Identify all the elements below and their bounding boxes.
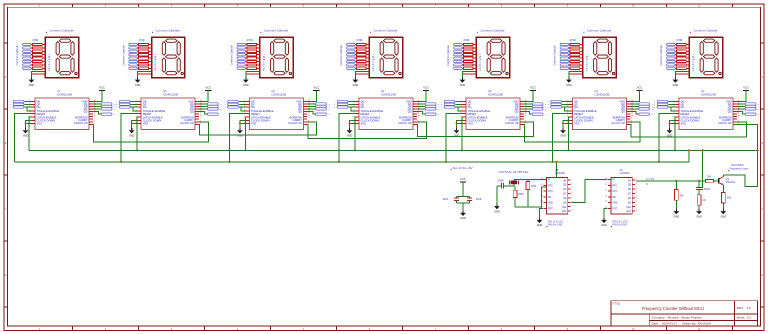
svg-text:CRYSTAL 32.768 KHz: CRYSTAL 32.768 KHz — [499, 170, 529, 174]
wire carry link U5 to U4 — [307, 122, 426, 139]
display DS2 (7-segment common cathode) — [152, 37, 185, 77]
label ALL VCCs +5V — [451, 166, 473, 171]
svg-text:8: 8 — [572, 210, 573, 212]
counter IC U7 left terminals — [10, 100, 24, 109]
counter IC U6 left terminals — [116, 100, 130, 109]
svg-text:x: x — [116, 101, 117, 103]
ground DS3 — [243, 78, 249, 87]
svg-text:12: 12 — [605, 190, 607, 192]
svg-text:VCC: VCC — [205, 86, 211, 90]
wire U4 RESET to reset bus — [338, 114, 355, 163]
counter IC U2 CD40110B body — [573, 98, 627, 130]
svg-text:x: x — [116, 104, 117, 106]
svg-text:13: 13 — [541, 195, 543, 197]
svg-text:GND: GND — [537, 224, 543, 227]
svg-text:VCC: VCC — [530, 86, 536, 90]
svg-text:Common Cathode: Common Cathode — [264, 28, 289, 32]
svg-text:QG: QG — [681, 105, 685, 109]
wire reset bus — [14, 150, 689, 162]
svg-text:Q13: Q13 — [562, 210, 567, 213]
svg-text:RST: RST — [548, 207, 553, 210]
wires U5 VSS and CLOCK DOWN to ground — [239, 120, 246, 128]
display DS4 label Common Cathode — [370, 28, 398, 33]
svg-text:20M: 20M — [518, 192, 524, 196]
svg-text:8: 8 — [636, 210, 637, 212]
display DS7 common cathode pin — [675, 73, 689, 75]
counter IC U2 right terminals — [639, 103, 653, 116]
svg-text:7: 7 — [636, 205, 637, 207]
ground R6 — [720, 209, 726, 218]
display DS5 segment terminals — [447, 43, 462, 69]
svg-text:Common Cathode: Common Cathode — [156, 28, 181, 32]
svg-text:1K: 1K — [702, 198, 706, 202]
svg-text:x: x — [652, 109, 653, 111]
wires U7 VSS and CLOCK DOWN to ground — [25, 120, 32, 128]
svg-text:Common Cathode: Common Cathode — [587, 28, 612, 32]
display DS6 segment terminals — [554, 43, 569, 69]
svg-text:VSS: VSS — [251, 122, 257, 126]
svg-text:2M: 2M — [680, 193, 685, 197]
svg-text:x: x — [329, 109, 330, 111]
svg-text:D: D — [761, 274, 763, 277]
svg-text:x: x — [10, 104, 11, 106]
counter IC U7 pins — [29, 100, 95, 125]
svg-text:CD40110B: CD40110B — [595, 92, 610, 96]
svg-text:6: 6 — [136, 116, 137, 118]
svg-text:RESET: RESET — [468, 112, 477, 116]
display DS1 label Common Cathode — [46, 28, 74, 33]
svg-text:QD: QD — [515, 110, 519, 114]
svg-text:GND: GND — [494, 210, 500, 213]
wire bus feed to U8 — [555, 161, 557, 178]
ground DS2 — [135, 78, 141, 87]
wire VCC to decoupling caps — [457, 182, 470, 198]
svg-text:GND: GND — [460, 84, 466, 87]
display DS6 label Common Cathode — [583, 28, 611, 33]
svg-text:5: 5 — [572, 197, 573, 199]
svg-text:QD: QD — [728, 110, 732, 114]
ground R3 — [673, 209, 679, 218]
label U9 PIN16 VCC PIN8 GND — [611, 221, 628, 228]
svg-text:CLOCK UP: CLOCK UP — [74, 121, 88, 125]
crystal X1 32.768kHz — [510, 180, 519, 186]
svg-text:33pF: 33pF — [498, 178, 505, 182]
svg-text:x: x — [654, 107, 655, 109]
svg-text:VSS: VSS — [574, 122, 580, 126]
counter IC U6 right terminals — [207, 103, 221, 116]
wire carry link U4 to U3 — [417, 122, 534, 137]
wire U5 LATCH ENABLE to latch bus — [244, 117, 246, 151]
svg-text:CD40110B: CD40110B — [701, 92, 716, 96]
wires U5 right pins to terminals — [307, 104, 315, 114]
svg-text:QG: QG — [251, 105, 255, 109]
svg-text:GND: GND — [601, 224, 607, 227]
wire carry link U7 to U6 — [93, 122, 209, 142]
wire U8 output to U9 input — [571, 180, 607, 203]
svg-text:CD40110B: CD40110B — [57, 92, 72, 96]
counter IC U3 right terminals — [532, 103, 546, 116]
wire DS5 cathode to ground — [462, 72, 476, 80]
display DS1 common cathode pin — [31, 73, 45, 75]
label U6 CD40110B — [163, 89, 178, 97]
label U9 CD4060 — [620, 169, 630, 175]
svg-text:a b c d e f g dp 1: a b c d e f g dp 1 — [155, 53, 157, 71]
display DS4 (7-segment common cathode) — [369, 37, 402, 77]
counter IC U5 left terminals — [224, 100, 238, 109]
power VCC at U6 — [205, 86, 211, 91]
svg-text:Common Cathode: Common Cathode — [340, 45, 343, 66]
wire decoupling caps to ground — [457, 201, 470, 212]
wire carry link U6 to U5 — [199, 122, 317, 135]
svg-text:9: 9 — [631, 118, 632, 120]
svg-text:CD40110B: CD40110B — [163, 92, 178, 96]
display DS5 label Common Cathode — [477, 28, 505, 33]
svg-text:x: x — [758, 109, 759, 111]
svg-text:GND: GND — [673, 84, 679, 87]
svg-text:GND: GND — [23, 134, 29, 137]
svg-text:470R: 470R — [570, 38, 576, 42]
svg-text:470R: 470R — [356, 38, 362, 42]
counter IC U3 pins — [460, 100, 526, 125]
svg-text:VCC: VCC — [460, 177, 466, 181]
svg-text:QD: QD — [621, 110, 625, 114]
svg-text:RS: RS — [612, 196, 616, 199]
display DS7 label Common Cathode — [690, 28, 718, 33]
wire VCC to U3 pin 16 — [524, 90, 533, 101]
power VCC at U5 — [313, 86, 319, 91]
svg-text:6: 6 — [353, 116, 354, 118]
wire carry link U3 to U2 — [524, 122, 640, 142]
svg-text:QD: QD — [84, 110, 88, 114]
wires U7 left terminals to pins — [24, 102, 31, 111]
svg-text:a b c d e f g dp 1: a b c d e f g dp 1 — [480, 53, 482, 71]
svg-text:PI: PI — [612, 179, 615, 182]
power VCC at U4 — [423, 86, 429, 91]
wires U2 right pins to terminals — [630, 104, 638, 114]
capacitor C2 10nF — [467, 197, 482, 201]
svg-text:2N2222: 2N2222 — [726, 180, 736, 184]
wire VCC to U7 pin 16 — [93, 90, 102, 101]
wire latch bus down to C4 — [702, 149, 704, 187]
svg-text:x: x — [224, 101, 225, 103]
wire U9 VSS to ground — [604, 208, 607, 218]
label U1 CD40110B — [701, 89, 716, 97]
wire U6 LATCH ENABLE to latch bus — [136, 117, 138, 151]
ground U2 — [560, 128, 566, 137]
wires U1 VSS and CLOCK DOWN to ground — [669, 120, 676, 128]
svg-text:CLOCK UP: CLOCK UP — [288, 121, 302, 125]
wires U2 left terminals to pins — [562, 102, 569, 111]
display DS5 common cathode pin — [462, 73, 476, 75]
svg-text:x: x — [114, 109, 115, 111]
svg-text:VCC: VCC — [423, 86, 429, 90]
svg-text:QD: QD — [190, 110, 194, 114]
svg-text:PI: PI — [548, 179, 551, 182]
svg-text:CLOCK UP: CLOCK UP — [505, 121, 519, 125]
svg-text:470R: 470R — [32, 38, 38, 42]
wire VCC to U1 pin 16 — [737, 90, 746, 101]
svg-text:Frequency Counter Without MCU: Frequency Counter Without MCU — [642, 306, 704, 311]
svg-text:11: 11 — [541, 184, 543, 186]
svg-text:Q13: Q13 — [626, 210, 631, 213]
wire U9 output 2Hz signal line — [636, 180, 706, 182]
counter IC U2 left terminals — [548, 100, 562, 109]
label U8 PIN16 VCC PIN8 GND — [546, 221, 563, 228]
ground U5 — [237, 128, 243, 137]
wires U6 VSS and CLOCK DOWN to ground — [131, 120, 138, 128]
svg-text:Q12: Q12 — [626, 206, 631, 209]
wire U4 LATCH ENABLE to latch bus — [354, 117, 356, 151]
capacitor C3 33pF — [498, 178, 505, 188]
svg-text:GND: GND — [135, 84, 141, 87]
svg-text:13: 13 — [605, 195, 607, 197]
wire U2 RESET to reset bus — [551, 114, 568, 163]
svg-text:RTC: RTC — [612, 184, 617, 187]
svg-text:x: x — [545, 109, 546, 111]
divider IC U9 CD4060 body — [611, 178, 632, 214]
svg-text:6: 6 — [673, 116, 674, 118]
counter IC U3 left terminals — [441, 100, 455, 109]
svg-text:x: x — [334, 101, 335, 103]
svg-text:Common Cathode: Common Cathode — [122, 45, 125, 66]
svg-text:10M: 10M — [531, 184, 537, 188]
wire DS6 cathode to ground — [569, 72, 583, 80]
counter IC U1 right terminals — [745, 103, 759, 116]
svg-text:CLOCK UP: CLOCK UP — [398, 121, 412, 125]
display DS4 common cathode pin — [355, 73, 369, 75]
wires U6 right pins to terminals — [199, 104, 207, 114]
svg-text:a b c d e f g dp 1: a b c d e f g dp 1 — [693, 53, 695, 71]
wire R1 R2 to U8 oscillator pin — [515, 187, 546, 207]
transistor Q1 2N2222 — [719, 177, 736, 185]
ground U1 — [667, 128, 673, 137]
svg-text:VSS: VSS — [468, 122, 474, 126]
svg-text:a b c d e f g dp 1: a b c d e f g dp 1 — [373, 53, 375, 71]
svg-text:2: 2 — [572, 183, 573, 185]
svg-text:QG: QG — [468, 105, 472, 109]
svg-text:Frequency Input: Frequency Input — [730, 167, 749, 171]
svg-text:QD: QD — [408, 110, 412, 114]
wire U7 RESET to reset bus — [14, 114, 31, 162]
svg-text:VCC: VCC — [99, 86, 105, 90]
counter IC U3 CD40110B body — [466, 98, 520, 130]
wire U1 RESET to reset bus — [658, 114, 675, 163]
svg-text:Common Cathode: Common Cathode — [49, 28, 74, 32]
svg-text:10nF: 10nF — [704, 187, 711, 191]
wire U7 LATCH ENABLE to latch bus — [29, 117, 31, 150]
wires U2 VSS and CLOCK DOWN to ground — [562, 120, 569, 128]
svg-text:x: x — [441, 107, 442, 109]
svg-text:x: x — [548, 101, 549, 103]
svg-text:Common Cathode: Common Cathode — [231, 45, 234, 66]
svg-text:x: x — [10, 101, 11, 103]
wire C3 to ground — [497, 186, 502, 205]
svg-text:x: x — [654, 101, 655, 103]
counter IC U1 left terminals — [654, 100, 668, 109]
svg-text:a b c d e f g dp 1: a b c d e f g dp 1 — [263, 53, 265, 71]
svg-text:a b c d e f g dp 1: a b c d e f g dp 1 — [587, 53, 589, 71]
svg-text:PIN 8 is GND: PIN 8 is GND — [548, 224, 563, 227]
svg-text:3: 3 — [636, 188, 637, 190]
counter IC U1 pins — [673, 100, 739, 125]
wire DS4 cathode to ground — [355, 72, 369, 80]
svg-text:Date: 2020-01-17 Drawn: Date: 2020-01-17 Drawn By: MOUSSA — [652, 322, 711, 326]
svg-text:QG: QG — [143, 105, 147, 109]
svg-text:Sheet: 1/1: Sheet: 1/1 — [737, 316, 752, 320]
power VCC at U2 — [636, 86, 642, 91]
svg-text:CD4060: CD4060 — [620, 171, 630, 175]
svg-text:VDD: VDD — [548, 202, 553, 205]
svg-text:x: x — [545, 114, 546, 116]
display DS2 common cathode pin — [138, 73, 152, 75]
svg-text:Common Cathode: Common Cathode — [447, 45, 450, 66]
svg-text:470R: 470R — [463, 38, 469, 42]
ground U8 — [537, 218, 543, 227]
svg-text:x: x — [10, 107, 11, 109]
svg-text:GND: GND — [353, 84, 359, 87]
svg-text:11: 11 — [605, 184, 607, 186]
wires U4 VSS and CLOCK DOWN to ground — [349, 120, 356, 128]
svg-text:GND: GND — [674, 215, 680, 218]
svg-text:CLOCK UP: CLOCK UP — [180, 121, 194, 125]
svg-text:Q1: Q1 — [726, 177, 730, 181]
ground U4 — [347, 128, 353, 137]
svg-text:6: 6 — [567, 116, 568, 118]
wire U1 LATCH ENABLE to latch bus — [674, 117, 676, 151]
display DS3 common cathode pin — [246, 73, 260, 75]
display DS1 (7-segment common cathode) — [45, 37, 78, 77]
capacitor C1 10nF — [442, 197, 459, 201]
power VCC at U7 — [99, 86, 105, 91]
title block — [611, 301, 758, 326]
label 2.1 Hz — [646, 177, 655, 184]
wire U3 LATCH ENABLE to latch bus — [461, 117, 463, 151]
wires U4 left terminals to pins — [348, 102, 355, 111]
counter IC U4 pins — [353, 100, 419, 125]
svg-text:470R: 470R — [138, 38, 144, 42]
ground DS1 — [29, 78, 35, 87]
svg-text:x: x — [548, 107, 549, 109]
svg-text:7: 7 — [572, 205, 573, 207]
svg-text:GND: GND — [721, 215, 727, 218]
svg-text:CD40110B: CD40110B — [271, 92, 286, 96]
svg-text:35mV/MHz: 35mV/MHz — [731, 163, 745, 167]
svg-text:RESET: RESET — [251, 112, 260, 116]
svg-text:QD: QD — [298, 110, 302, 114]
junction reset bus to latch bus — [688, 149, 690, 151]
svg-text:x: x — [329, 114, 330, 116]
svg-text:VCC: VCC — [743, 86, 749, 90]
svg-text:9: 9 — [525, 118, 526, 120]
divider IC U9 pins — [605, 178, 637, 212]
wire DS3 cathode to ground — [246, 72, 260, 80]
counter IC U5 pins — [244, 100, 310, 125]
counter IC U4 right terminals — [425, 103, 439, 116]
display DS7 (7-segment common cathode) — [689, 37, 722, 77]
svg-text:CTC: CTC — [612, 190, 617, 193]
svg-text:Common Cathode: Common Cathode — [480, 28, 505, 32]
resistor network RN7 (8x 470R segment resistors) — [675, 43, 690, 69]
svg-text:CLOCK UP: CLOCK UP — [718, 121, 732, 125]
svg-text:x: x — [224, 104, 225, 106]
svg-text:Common Cathode: Common Cathode — [693, 28, 718, 32]
wire VCC to U4 pin 16 — [417, 90, 426, 101]
svg-text:x: x — [441, 104, 442, 106]
wire VCC to U5 pin 16 — [307, 90, 316, 101]
svg-text:6: 6 — [460, 116, 461, 118]
wire DS2 cathode to ground — [138, 72, 152, 80]
svg-text:VCC: VCC — [314, 86, 320, 90]
power VCC decoupling — [460, 177, 466, 182]
resistor network RN6 (8x 470R segment resistors) — [569, 43, 584, 69]
display DS2 segment terminals — [122, 43, 137, 69]
svg-text:GND: GND — [129, 134, 135, 137]
svg-text:VCC: VCC — [637, 86, 643, 90]
svg-text:Common Cathode: Common Cathode — [554, 45, 557, 66]
svg-text:x: x — [334, 104, 335, 106]
svg-text:Company: Moussa - Simple Pro: Company: Moussa - Simple Projects — [652, 316, 703, 320]
resistor network RN2 (8x 470R segment resistors) — [137, 43, 152, 69]
display DS3 (7-segment common cathode) — [260, 37, 293, 77]
svg-text:14: 14 — [605, 201, 607, 203]
wires U1 right pins to terminals — [737, 104, 745, 114]
svg-text:9: 9 — [94, 118, 95, 120]
svg-text:x: x — [114, 114, 115, 116]
svg-text:Common Cathode: Common Cathode — [373, 28, 398, 32]
svg-text:RESET: RESET — [681, 112, 690, 116]
svg-text:CD40110B: CD40110B — [488, 92, 503, 96]
wires U5 left terminals to pins — [239, 102, 246, 111]
label U7 CD40110B — [57, 89, 72, 97]
counter IC U4 CD40110B body — [359, 98, 413, 130]
ground decoupling — [460, 211, 466, 220]
svg-text:RST: RST — [612, 207, 617, 210]
display DS1 segment terminals — [16, 43, 31, 69]
resistor R5 2M base resistor — [705, 175, 718, 183]
svg-text:470R: 470R — [247, 38, 253, 42]
svg-text:PIN 8 is GND: PIN 8 is GND — [613, 224, 628, 227]
svg-text:C: C — [761, 208, 763, 211]
svg-text:9: 9 — [418, 118, 419, 120]
wires U3 right pins to terminals — [524, 104, 532, 114]
svg-text:RESET: RESET — [361, 112, 370, 116]
svg-text:470R: 470R — [676, 38, 682, 42]
svg-text:9: 9 — [308, 118, 309, 120]
wire DS7 cathode to ground — [675, 72, 689, 80]
svg-text:VSS: VSS — [143, 122, 149, 126]
wire latch-enable bus — [29, 149, 758, 151]
wire U8 VSS to ground — [540, 208, 543, 218]
wire U3 RESET to reset bus — [445, 114, 462, 163]
svg-text:RESET: RESET — [37, 112, 46, 116]
resistor network RN3 (8x 470R segment resistors) — [246, 43, 261, 69]
svg-text:CTC: CTC — [548, 190, 553, 193]
resistor R4 1K — [697, 190, 706, 210]
display DS5 (7-segment common cathode) — [476, 37, 509, 77]
display DS2 label Common Cathode — [152, 28, 180, 33]
svg-text:GND: GND — [347, 134, 353, 137]
svg-text:x: x — [220, 114, 221, 116]
display DS3 label Common Cathode — [260, 28, 288, 33]
ground U7 — [23, 128, 29, 137]
svg-text:QG: QG — [574, 105, 578, 109]
svg-text:GND: GND — [566, 84, 572, 87]
svg-text:Common Cathode: Common Cathode — [16, 45, 19, 66]
junction signal to C4 — [698, 180, 700, 182]
power VCC at U1 — [743, 86, 749, 91]
svg-text:x: x — [441, 101, 442, 103]
resistor network RN4 (8x 470R segment resistors) — [355, 43, 370, 69]
